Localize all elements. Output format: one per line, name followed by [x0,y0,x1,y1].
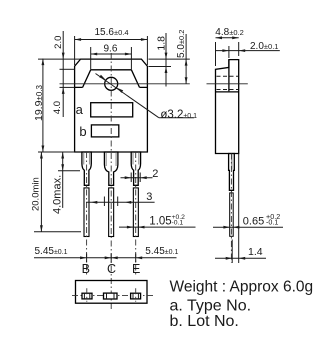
svg-text:4.0: 4.0 [52,101,63,114]
bottom view lead C section [104,293,118,299]
bottom view lead B section [82,293,92,299]
dim 2 line [121,177,153,179]
svg-text:2.0: 2.0 [53,36,64,49]
dim 4.8 line [216,37,239,39]
top edge extension right [149,58,190,60]
svg-text:4.0max.: 4.0max. [52,175,64,214]
svg-text:b. Lot No.: b. Lot No. [170,313,239,330]
chamfer extension right [149,66,172,68]
dim 0.65 line [213,226,283,228]
svg-text:1.8: 1.8 [156,36,168,51]
hole horizontal centerline [60,83,190,85]
svg-text:b: b [79,124,86,139]
front view body outline [75,59,148,152]
marking rect a [91,103,133,117]
dim 3 line [86,201,155,203]
side view tab front internal line [228,60,230,92]
dim 15.6 extension lines [74,36,76,65]
mounting hole [105,77,118,90]
dim 9.6 line [91,53,132,55]
svg-text:9.6: 9.6 [104,44,118,55]
dim 1.4 extension line [231,240,233,264]
bottom view lead E section [131,293,141,299]
centerline lead E [135,152,137,277]
dim 20.0min line [40,152,42,232]
centerline lead B [86,152,88,277]
lead B [82,152,91,185]
svg-text:0.65: 0.65 [243,216,264,228]
svg-text:4.8±0.2: 4.8±0.2 [215,27,243,38]
bottom view centerline B [86,288,88,301]
dim 9.6 extension lines [90,47,92,70]
side view hole hidden lines [217,75,239,77]
svg-text:2: 2 [152,168,158,180]
svg-text:5.0±0.2: 5.0±0.2 [176,30,187,58]
svg-text:20.0min: 20.0min [31,177,42,211]
svg-text:a. Type No.: a. Type No. [170,298,252,315]
dim 2.0 side extension [228,46,230,58]
bottom view centerline E [135,288,137,301]
side view hole centerline [207,83,248,85]
dim 4.0max line [62,152,64,208]
front view mesa step [75,70,148,88]
hole callout leader [96,74,159,118]
bottom edge extension left [38,151,75,153]
dim 2.0 / 4.0 shared line [62,31,64,117]
dim 4.8 extension lines [215,42,217,66]
dim 15.6 line [75,39,148,41]
side view step line [216,91,239,93]
side view lead [229,154,235,191]
dim 1.4 line [215,257,266,259]
collar extension left [60,68,75,70]
dim 5.0 line [185,34,187,84]
side view outline [216,60,239,154]
svg-text:1.05: 1.05 [149,216,171,228]
centerline ticks [86,254,88,263]
dim 2.0 side line [216,50,280,52]
svg-text:B: B [82,262,90,276]
dim 2 (lead width) extension stubs [130,173,132,183]
svg-text:a: a [76,102,84,117]
main vertical centerline [110,53,112,310]
bottom view horizontal centerline [72,294,155,296]
svg-text:15.6±0.4: 15.6±0.4 [95,27,129,38]
dim 19.9 line [42,59,44,152]
svg-text:-0.1: -0.1 [266,218,278,227]
svg-text:E: E [132,262,140,276]
lead C [104,152,118,185]
dim 3 extension stubs [103,197,105,207]
svg-text:Weight : Approx 6.0g: Weight : Approx 6.0g [170,279,314,296]
lead shoulder extension [58,170,80,172]
svg-text:C: C [107,262,116,276]
svg-text:19.9±0.3: 19.9±0.3 [33,85,45,122]
dim 1.05 line [119,226,196,228]
dim 5.45 line [34,257,177,259]
svg-text:3: 3 [146,191,152,203]
side view lead centerline [230,154,232,263]
lead E [131,152,140,185]
marking rect b [91,125,118,137]
lead tip extension line [34,231,81,233]
hole callout underline [159,117,194,119]
svg-text:-0.1: -0.1 [172,219,184,226]
svg-text:2.0±0.1: 2.0±0.1 [250,41,278,52]
bottom view outline [76,281,148,304]
side view back edge extension down [238,154,240,264]
dim 1.8 line [165,33,167,87]
mesa bottom extension left [60,86,75,88]
svg-text:1.4: 1.4 [248,246,263,258]
top edge extension left [38,58,81,60]
